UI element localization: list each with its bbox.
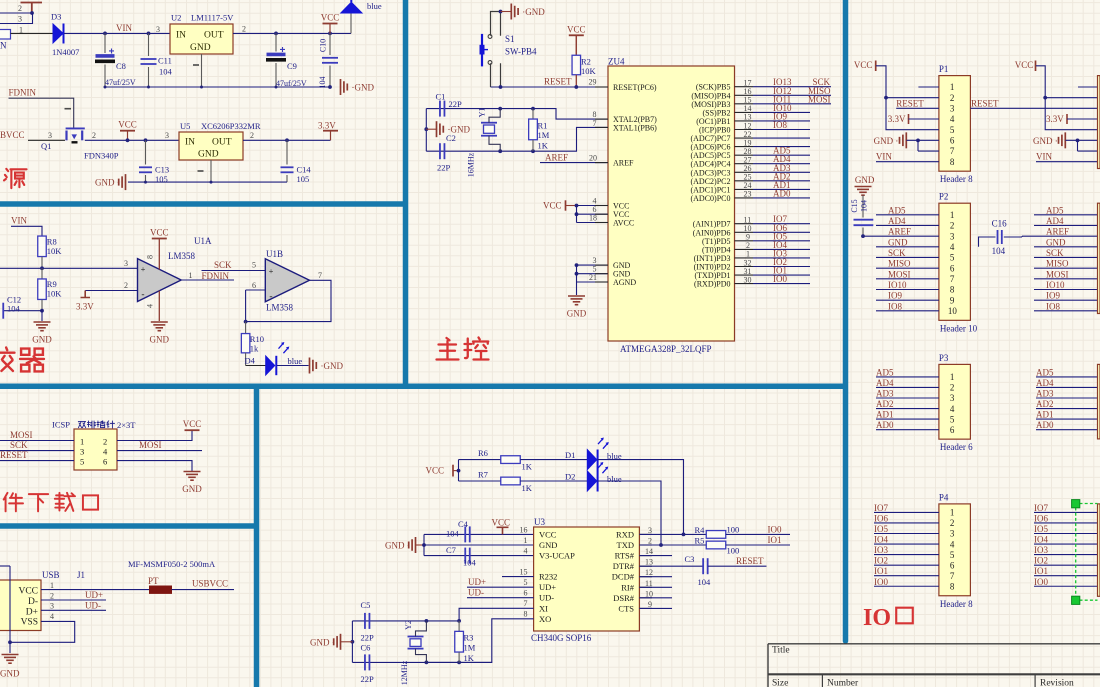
svg-text:AD3: AD3 — [1036, 389, 1054, 399]
svg-text:13: 13 — [645, 558, 653, 567]
svg-text:P2: P2 — [939, 192, 949, 202]
right header pin1 stub — [1078, 86, 1098, 88]
svg-text:16MHz: 16MHz — [467, 152, 476, 177]
svg-text:VIN: VIN — [116, 23, 132, 33]
svg-text:5: 5 — [950, 253, 955, 263]
svg-text:8: 8 — [950, 285, 955, 295]
svg-text:14: 14 — [645, 547, 653, 556]
svg-text:1: 1 — [950, 372, 955, 382]
svg-text:MOSI: MOSI — [1046, 269, 1069, 279]
svg-text:AD3: AD3 — [876, 389, 894, 399]
power port VCC at U3 pin16 — [497, 527, 509, 534]
svg-text:3: 3 — [50, 602, 54, 611]
svg-text:GND ·: GND · — [1033, 136, 1058, 146]
wire VIN to R8 — [11, 226, 42, 236]
svg-text:8: 8 — [146, 255, 155, 259]
svg-text:IO6: IO6 — [1034, 513, 1048, 523]
svg-text:XC6206P332MR: XC6206P332MR — [201, 121, 261, 131]
svg-text:IO4: IO4 — [1034, 535, 1048, 545]
svg-text:IO7: IO7 — [874, 503, 888, 513]
U1B feedback loop pin7 — [246, 280, 331, 321]
svg-text:R6: R6 — [478, 448, 488, 458]
svg-text:7: 7 — [950, 274, 955, 284]
svg-text:blue: blue — [288, 356, 303, 366]
wire D2 to TXD net — [598, 481, 661, 545]
svg-text:12: 12 — [645, 568, 653, 577]
svg-text:C9: C9 — [287, 61, 297, 71]
svg-text:AREF: AREF — [613, 159, 634, 168]
left vertical C5-C6 with GND — [351, 621, 353, 663]
svg-text:C4: C4 — [458, 519, 469, 529]
resistor R3 1M — [458, 621, 460, 631]
svg-text:Header 10: Header 10 — [940, 323, 978, 333]
svg-text:2: 2 — [242, 25, 246, 34]
svg-text:IO2: IO2 — [874, 556, 888, 566]
ground for R9 — [41, 311, 43, 321]
svg-text:C6: C6 — [361, 643, 371, 653]
svg-text:2: 2 — [950, 383, 955, 393]
svg-text:15: 15 — [520, 568, 528, 577]
svg-text:1M: 1M — [538, 130, 550, 140]
svg-text:R1: R1 — [538, 121, 548, 131]
svg-text:100: 100 — [727, 525, 740, 535]
svg-text:UD-: UD- — [468, 588, 484, 598]
svg-text:2: 2 — [103, 436, 107, 446]
svg-text:IO0: IO0 — [773, 274, 787, 284]
svg-text:(ADC0)PC0: (ADC0)PC0 — [690, 194, 730, 203]
U2 GND pin — [201, 54, 203, 87]
svg-text:BVCC: BVCC — [0, 130, 25, 140]
power port VCC — [185, 429, 200, 431]
svg-text:R3: R3 — [464, 633, 474, 643]
earth ground AGND — [568, 295, 585, 297]
svg-text:Number: Number — [827, 679, 859, 687]
XO wire to crystal — [426, 619, 533, 663]
svg-text:5: 5 — [950, 550, 955, 560]
section divider horizontal H2 — [0, 384, 846, 390]
svg-text:C11: C11 — [158, 56, 172, 66]
svg-text:D4: D4 — [245, 356, 256, 366]
resistor R8 10K — [38, 236, 47, 256]
svg-text:3.3V: 3.3V — [76, 302, 94, 312]
net label IO1 — [726, 544, 790, 546]
wire VSS loop to shield — [10, 621, 75, 642]
svg-text:47uf/25V: 47uf/25V — [105, 78, 136, 87]
svg-text:4: 4 — [593, 196, 597, 205]
svg-text:IO10: IO10 — [1046, 280, 1065, 290]
svg-text:1k: 1k — [250, 344, 259, 354]
power port VCC — [323, 23, 338, 25]
green selection marquee — [1076, 504, 1098, 601]
red section label (download port) — [4, 493, 23, 511]
svg-text:Size: Size — [772, 679, 788, 687]
svg-text:USB: USB — [42, 570, 60, 580]
crystal top rail — [352, 620, 459, 622]
svg-text:S1: S1 — [505, 34, 515, 44]
capacitor C12 104 (left edge) — [4, 310, 42, 312]
svg-text:2: 2 — [250, 131, 254, 140]
U1A power pin 4 GND — [158, 291, 160, 321]
svg-text:Header 8: Header 8 — [940, 174, 973, 184]
svg-text:1M: 1M — [464, 643, 476, 653]
RXD wire to R4 — [639, 533, 706, 535]
svg-text:RI#: RI# — [621, 582, 635, 592]
junction C13 — [144, 138, 148, 142]
svg-text:VIN: VIN — [876, 152, 892, 162]
svg-text:R2: R2 — [581, 57, 591, 67]
svg-text:IO8: IO8 — [1046, 301, 1060, 311]
svg-text:(RXD)PD0: (RXD)PD0 — [694, 280, 730, 289]
svg-text:AD5: AD5 — [876, 367, 894, 377]
capacitor C2 22P — [426, 150, 533, 152]
U1B pin6 wire — [246, 289, 266, 291]
svg-text:AD4: AD4 — [1046, 216, 1064, 226]
svg-text:7: 7 — [524, 599, 528, 608]
svg-text:Y2: Y2 — [404, 620, 413, 630]
svg-text:10K: 10K — [581, 66, 597, 76]
svg-text:30: 30 — [744, 275, 752, 284]
resistor R5 100 — [706, 541, 726, 549]
svg-text:22P: 22P — [449, 99, 463, 109]
wire top rail to XTAL2 pin8 — [533, 109, 608, 120]
junction R10 feedback — [244, 320, 248, 324]
svg-text:FDN340P: FDN340P — [84, 151, 119, 161]
svg-text:R7: R7 — [478, 470, 488, 480]
svg-text:AREF: AREF — [888, 227, 911, 237]
svg-text:AD4: AD4 — [876, 378, 894, 388]
net label IO0 — [726, 533, 790, 535]
voltage regulator U2 LM1117-5V — [170, 24, 233, 54]
svg-text:USBVCC: USBVCC — [192, 579, 228, 589]
svg-text:22P: 22P — [361, 633, 375, 643]
section divider vertical V3 — [254, 386, 260, 687]
svg-text:AD5: AD5 — [888, 205, 906, 215]
svg-text:GND: GND — [198, 150, 219, 160]
svg-text:VCC: VCC — [426, 466, 445, 476]
svg-text:D2: D2 — [565, 472, 575, 482]
label (double-row pins 2x3T) — [78, 421, 85, 427]
svg-text:Revision: Revision — [1040, 679, 1074, 687]
svg-text:3: 3 — [80, 446, 84, 456]
svg-text:GND: GND — [190, 43, 211, 53]
op-amp U1A LM358 — [138, 259, 182, 302]
svg-text:IO0: IO0 — [1034, 577, 1048, 587]
wire FDNIN to Q1 gate — [9, 98, 74, 128]
svg-text:VCC: VCC — [118, 120, 137, 130]
capacitor C15 104 (rotated) — [862, 195, 864, 217]
resistor R7 1K — [459, 480, 502, 482]
svg-text:IO2: IO2 — [1034, 556, 1048, 566]
wire pin3 — [0, 13, 33, 24]
net label UD- pin3 — [41, 609, 106, 611]
red section label (main control) — [437, 338, 459, 360]
svg-text:GND: GND — [1046, 237, 1066, 247]
svg-text:LM358: LM358 — [266, 303, 294, 313]
capacitor C1 22P — [426, 108, 533, 110]
svg-text:2: 2 — [124, 281, 128, 290]
svg-text:3.3V: 3.3V — [318, 121, 336, 131]
svg-text:VCC: VCC — [543, 201, 562, 211]
svg-text:AD4: AD4 — [888, 216, 906, 226]
svg-text:DSR#: DSR# — [613, 593, 635, 603]
resistor R10 1k — [245, 322, 247, 334]
svg-text:1: 1 — [50, 581, 54, 590]
transistor Q1 FDN340P — [66, 127, 85, 129]
svg-text:OUT: OUT — [212, 138, 232, 148]
svg-text:VIN: VIN — [11, 216, 27, 226]
svg-text:U2: U2 — [171, 13, 181, 23]
svg-text:VCC: VCC — [613, 202, 629, 211]
power ground GND above S1 — [510, 4, 512, 20]
RESET wire to pin29 — [491, 86, 609, 88]
svg-text:-: - — [269, 292, 272, 302]
P1 pin2 wire — [886, 97, 939, 99]
wire to op-amp pin3 — [0, 267, 138, 269]
svg-text:GND: GND — [855, 175, 875, 185]
svg-text:IN: IN — [176, 31, 186, 41]
svg-text:8: 8 — [950, 157, 955, 167]
svg-text:22P: 22P — [361, 674, 375, 684]
svg-text:C8: C8 — [116, 61, 126, 71]
svg-text:11: 11 — [645, 579, 653, 588]
svg-text:SW-PB4: SW-PB4 — [505, 47, 537, 57]
svg-text:7: 7 — [950, 146, 955, 156]
capacitor C13 105 — [145, 140, 147, 164]
capacitor C3 104 on DTR — [639, 565, 703, 567]
svg-text:4: 4 — [950, 242, 955, 252]
RTS stub — [639, 555, 672, 557]
svg-text:IO10: IO10 — [888, 280, 907, 290]
svg-text:R4: R4 — [695, 525, 706, 535]
junction crystal top — [498, 107, 502, 111]
svg-text:CH340G SOP16: CH340G SOP16 — [531, 633, 592, 643]
cut-off header boxes at right edge — [1098, 76, 1100, 169]
svg-text:104: 104 — [992, 246, 1006, 256]
fuse PT MF-MSMF050-2 500mA — [150, 586, 172, 593]
svg-text:7: 7 — [318, 271, 322, 280]
svg-text:IO3: IO3 — [874, 545, 888, 555]
svg-text:6: 6 — [950, 136, 955, 146]
junction C12 — [40, 309, 44, 313]
earth ground USB — [2, 654, 19, 656]
svg-text:GND: GND — [0, 669, 20, 679]
svg-text:Q1: Q1 — [41, 141, 51, 151]
resistor R6 1K — [459, 459, 502, 461]
junction crystal bottom — [498, 149, 502, 153]
svg-text:D-: D- — [28, 597, 38, 607]
power port VCC at Q1 drain — [120, 130, 135, 132]
svg-text:9: 9 — [950, 295, 955, 305]
svg-text:C7: C7 — [446, 545, 456, 555]
svg-text:IO9: IO9 — [1046, 291, 1060, 301]
LED blue (top, cut) — [350, 12, 352, 33]
svg-text:XI: XI — [539, 603, 548, 613]
svg-text:SCK: SCK — [1046, 248, 1064, 258]
S1 bottom contact to RESET rail — [499, 85, 503, 89]
svg-text:GND: GND — [888, 237, 908, 247]
section divider horizontal H3 — [0, 523, 259, 529]
voltage regulator U5 XC6206P332MR — [179, 132, 243, 160]
svg-text:P1: P1 — [939, 64, 949, 74]
svg-text:GND: GND — [150, 335, 170, 345]
svg-text:1: 1 — [950, 210, 955, 220]
svg-text:2: 2 — [950, 518, 955, 528]
svg-text:2: 2 — [950, 93, 955, 103]
svg-text:UD+: UD+ — [85, 590, 103, 600]
svg-text:C1: C1 — [436, 92, 446, 102]
power bar at top-left — [21, 3, 43, 13]
svg-text:IO5: IO5 — [874, 524, 888, 534]
GND rail of power stage — [105, 86, 331, 88]
svg-text:1: 1 — [189, 271, 193, 280]
wire bottom rail to XTAL1 pin7 — [533, 127, 608, 151]
svg-text:U1A: U1A — [194, 236, 212, 246]
svg-text:DCD#: DCD# — [612, 572, 635, 582]
wire D3 to U2 — [64, 32, 170, 34]
svg-text:VCC: VCC — [321, 13, 340, 23]
svg-text:1K: 1K — [522, 483, 533, 493]
net label USBVCC — [172, 589, 235, 591]
svg-text:IO0: IO0 — [874, 577, 888, 587]
svg-text:8: 8 — [524, 610, 528, 619]
svg-text:P3: P3 — [939, 353, 949, 363]
junction — [30, 11, 34, 15]
svg-text:IO0: IO0 — [768, 525, 782, 535]
svg-text:ICSP: ICSP — [52, 420, 70, 430]
svg-text:3: 3 — [648, 526, 652, 535]
svg-text:XTAL1(PB6): XTAL1(PB6) — [613, 123, 657, 132]
svg-text:Header 8: Header 8 — [940, 599, 973, 609]
svg-text:IO8: IO8 — [888, 301, 902, 311]
svg-text:SCK: SCK — [888, 248, 906, 258]
diode D3 1N4007 — [53, 24, 63, 43]
svg-text:1K: 1K — [464, 653, 475, 663]
svg-text:6: 6 — [252, 281, 256, 290]
earth ground — [184, 471, 201, 473]
svg-text:Y1: Y1 — [478, 108, 487, 118]
svg-text:GND ·: GND · — [95, 178, 120, 188]
svg-text:C5: C5 — [361, 600, 371, 610]
stub pins 12 11 10 9 — [639, 576, 672, 578]
svg-text:ZU4: ZU4 — [608, 57, 625, 67]
U1A output wire net FDNIN — [181, 279, 234, 281]
svg-text:5: 5 — [80, 457, 84, 467]
svg-text:C3: C3 — [685, 554, 695, 564]
U3 pin1 wire — [424, 544, 534, 546]
svg-text:8: 8 — [593, 110, 597, 119]
svg-text:7: 7 — [593, 119, 597, 128]
svg-text:RESET(PC6): RESET(PC6) — [613, 83, 657, 92]
svg-text:9: 9 — [648, 600, 652, 609]
capacitor C11 104 — [148, 33, 150, 56]
crystal bottom rail — [352, 661, 491, 663]
svg-text:GND ·: GND · — [385, 541, 410, 551]
wire pin1 to fuse PT — [41, 589, 150, 591]
svg-text:LM1117-5V: LM1117-5V — [191, 13, 234, 23]
svg-text:AD5: AD5 — [1036, 367, 1054, 377]
svg-text:6: 6 — [950, 263, 955, 273]
svg-text:3: 3 — [950, 104, 955, 114]
svg-text:10: 10 — [948, 306, 958, 316]
svg-text:104: 104 — [7, 304, 21, 314]
svg-text:RTS#: RTS# — [615, 551, 635, 561]
connector DC-in (cut at left edge) — [0, 30, 11, 40]
svg-text:LM358: LM358 — [168, 251, 196, 261]
capacitor C14 105 — [286, 140, 288, 164]
svg-text:-: - — [141, 290, 144, 300]
svg-text:AD0: AD0 — [1036, 420, 1054, 430]
svg-text:IO1: IO1 — [768, 535, 782, 545]
svg-text:Header 6: Header 6 — [940, 442, 973, 452]
resistor R2 10K — [575, 35, 577, 55]
svg-text:100: 100 — [727, 546, 740, 556]
capacitor C6 22P — [364, 654, 366, 670]
svg-text:4: 4 — [50, 612, 54, 621]
svg-text:+: + — [141, 264, 146, 274]
svg-text:RESET: RESET — [736, 556, 764, 566]
section divider horizontal H1 — [0, 201, 406, 207]
svg-text:AD4: AD4 — [1036, 378, 1054, 388]
svg-text:R5: R5 — [695, 536, 705, 546]
U5 GND pin — [210, 160, 212, 182]
svg-text:IO3: IO3 — [1034, 545, 1048, 555]
capacitor C8 47uf/25V — [104, 33, 106, 53]
TXD wire to R5 — [639, 544, 706, 546]
svg-text:C14: C14 — [297, 165, 312, 175]
U3 pin15 stub — [502, 576, 534, 578]
svg-text:3.3V: 3.3V — [888, 114, 906, 124]
svg-text:2: 2 — [92, 131, 96, 140]
net label UD- pin6 — [467, 597, 534, 599]
svg-text:1K: 1K — [538, 141, 549, 151]
svg-text:3: 3 — [18, 15, 22, 24]
svg-text:XO: XO — [539, 614, 551, 624]
capacitor C10 104 (rotated) — [329, 33, 331, 55]
svg-text:CTS: CTS — [618, 603, 634, 613]
svg-text:MISO: MISO — [888, 259, 911, 269]
svg-text:·GND: ·GND — [522, 7, 545, 17]
resistor R4 100 — [706, 531, 726, 539]
svg-text:RESET: RESET — [544, 77, 572, 87]
svg-text:PT: PT — [148, 576, 159, 586]
svg-text:4: 4 — [950, 404, 955, 414]
svg-text:GND: GND — [539, 540, 557, 550]
svg-text:RESET: RESET — [0, 450, 28, 460]
svg-text:6: 6 — [950, 425, 955, 435]
svg-text:4: 4 — [146, 304, 155, 308]
svg-text:UD-: UD- — [539, 593, 554, 603]
svg-text:D+: D+ — [26, 607, 38, 617]
svg-text:4: 4 — [950, 114, 955, 124]
capacitor C4 104 — [424, 533, 534, 535]
VCC pins 4 6 18 — [577, 205, 609, 207]
svg-text:1K: 1K — [522, 462, 533, 472]
left vertical C1-C2 — [425, 109, 427, 152]
svg-text:4: 4 — [524, 547, 528, 556]
svg-text:6: 6 — [103, 457, 107, 467]
svg-text:C10: C10 — [319, 39, 328, 52]
junction C9 — [274, 32, 278, 36]
RESET wire to right header — [970, 107, 1097, 109]
svg-text:3: 3 — [950, 529, 955, 539]
junction R1 bottom — [531, 149, 535, 153]
svg-text:2: 2 — [648, 537, 652, 546]
svg-text:AD2: AD2 — [1036, 399, 1054, 409]
svg-text:RESET: RESET — [971, 98, 999, 108]
junction C11 — [147, 32, 151, 36]
svg-text:5: 5 — [950, 125, 955, 135]
svg-text:104: 104 — [860, 200, 869, 212]
